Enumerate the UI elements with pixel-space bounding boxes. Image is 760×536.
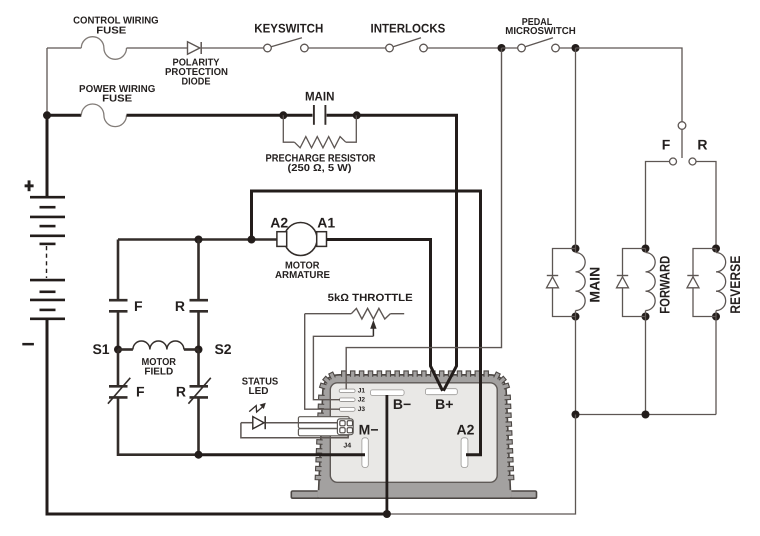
svg-text:FUSE: FUSE — [96, 25, 126, 36]
svg-text:FUSE: FUSE — [102, 94, 132, 105]
contact F normally closed with slash — [108, 378, 130, 404]
wire precharge branch left — [283, 115, 294, 142]
label M- — [359, 421, 379, 437]
label B+ — [435, 396, 453, 412]
svg-text:MICROSWITCH: MICROSWITCH — [505, 26, 576, 37]
wire main coil to bottom rail node — [575, 317, 577, 415]
wire throttle wiper to J2 — [313, 336, 373, 399]
label PRECHARGE RESISTOR — [266, 153, 376, 165]
controller U1 housing with heatsink fins and mounting base — [291, 371, 536, 498]
svg-text:LED: LED — [249, 386, 269, 397]
terminal B- bar — [370, 390, 404, 396]
wire R contact to reverse coil — [696, 162, 716, 249]
svg-text:KEYSWITCH: KEYSWITCH — [254, 21, 323, 35]
wire armature A1 to B+ terminal — [327, 240, 443, 391]
label B- — [393, 396, 411, 412]
wire main contactor to B+ terminal — [357, 115, 457, 391]
wire pedal switch to coil node — [559, 47, 575, 49]
wire battery positive to control fuse — [47, 48, 81, 115]
label POWER WIRING FUSE — [79, 84, 156, 104]
svg-text:R: R — [175, 298, 185, 314]
svg-text:S1: S1 — [92, 341, 109, 357]
wire S2 down to R normally-closed contact — [197, 350, 200, 387]
label A2 controller — [457, 421, 475, 437]
wire field bottom rail left — [118, 397, 199, 454]
svg-text:MAIN: MAIN — [586, 267, 602, 303]
label F upper contact — [134, 298, 143, 314]
svg-text:INTERLOCKS: INTERLOCKS — [371, 21, 446, 35]
relay coil REVERSE with flyback diode — [687, 245, 743, 321]
switch S1 keyswitch — [264, 38, 309, 52]
LED emission arrow — [249, 403, 266, 412]
node main contact left — [279, 111, 287, 119]
wire field top rail — [118, 238, 277, 241]
pin J2 — [339, 398, 355, 402]
wire reverse coil to bottom rail — [715, 317, 717, 415]
label J2 — [358, 397, 366, 404]
svg-text:MAIN: MAIN — [305, 90, 335, 104]
node S2 — [195, 346, 203, 354]
terminal M- bar — [362, 438, 368, 468]
wire battery negative lead — [47, 319, 388, 514]
wire battery positive lead — [46, 115, 49, 197]
label STATUS LED — [242, 377, 279, 398]
wire precharge branch right — [346, 115, 357, 142]
svg-text:F: F — [662, 137, 671, 153]
svg-text:REVERSE: REVERSE — [727, 256, 743, 314]
label J3 — [358, 406, 366, 413]
wire F contact to S1 — [117, 311, 120, 349]
svg-text:F: F — [136, 383, 145, 399]
node main contact right — [353, 111, 361, 119]
label KEYSWITCH — [254, 21, 323, 35]
label S2 — [214, 341, 231, 357]
resistor R1 precharge resistor — [294, 137, 345, 148]
wire S1 down to F normally-closed contact — [117, 350, 120, 387]
node field-armature junction S2 branch — [195, 236, 203, 244]
wire coil return rail — [576, 414, 717, 416]
label 5k ohm THROTTLE — [328, 292, 413, 304]
throttle wiper arrow — [370, 320, 376, 336]
switch S4 forward contact — [670, 158, 677, 165]
label PEDAL MICROSWITCH — [505, 17, 576, 37]
svg-text:J2: J2 — [358, 397, 366, 404]
svg-text:J4: J4 — [343, 443, 351, 450]
label R selector — [697, 137, 707, 153]
wire main contact to node — [327, 114, 357, 117]
label battery plus — [25, 180, 34, 191]
svg-text:B+: B+ — [435, 396, 453, 412]
wire KSI node to J1 — [346, 48, 501, 389]
terminal B+ bar — [425, 389, 457, 395]
label INTERLOCKS — [371, 21, 446, 35]
terminal A2 bar — [461, 438, 468, 468]
contact R reverse field contact — [190, 300, 209, 311]
wire LED cathode into connector — [266, 422, 347, 424]
svg-text:(250 Ω, 5 W): (250 Ω, 5 W) — [288, 163, 352, 174]
wire right branch to bottom rail — [197, 397, 200, 454]
node junction KSI — [498, 44, 506, 52]
wire right field branch upper — [197, 240, 200, 301]
wire forward coil to bottom rail — [645, 317, 647, 415]
svg-text:R: R — [697, 137, 707, 153]
node armature A2 junction — [248, 236, 256, 244]
svg-text:M−: M− — [359, 421, 379, 437]
label 250 ohm 5 W — [288, 163, 352, 174]
inductor motor field winding — [118, 341, 199, 349]
connector J4 cross — [337, 419, 353, 435]
svg-text:5kΩ THROTTLE: 5kΩ THROTTLE — [328, 292, 413, 304]
label MOTOR ARMATURE — [275, 261, 330, 281]
svg-text:A2: A2 — [270, 214, 288, 230]
pin J1 — [339, 389, 355, 393]
wire node to pedal microswitch — [502, 47, 518, 49]
connector housing upper — [298, 417, 349, 429]
node rail junction main — [572, 411, 580, 419]
wire keyswitch to interlocks — [308, 47, 386, 49]
svg-text:DIODE: DIODE — [182, 76, 211, 87]
switch S4 forward-reverse selector common — [678, 122, 686, 158]
node battery positive junction — [43, 111, 51, 119]
label F lower contact — [136, 383, 145, 399]
svg-text:FIELD: FIELD — [144, 366, 173, 377]
label J1 — [358, 387, 366, 394]
label A1 armature — [317, 214, 335, 230]
svg-text:ARMATURE: ARMATURE — [275, 270, 330, 281]
pin J3 — [339, 407, 355, 411]
wire LED anode return into connector — [241, 423, 348, 438]
wire fuse to diode — [127, 47, 188, 49]
contact R normally closed with slash — [188, 378, 210, 404]
node S1 — [114, 346, 122, 354]
relay coil MAIN with flyback diode — [547, 245, 603, 321]
svg-text:B−: B− — [393, 396, 411, 412]
svg-text:J3: J3 — [358, 406, 366, 413]
wire coil rail down to battery negative rail — [387, 415, 576, 515]
svg-text:A1: A1 — [317, 214, 335, 230]
label S1 — [92, 341, 109, 357]
LED D2 status LED — [241, 416, 265, 429]
label CONTROL WIRING FUSE — [73, 16, 159, 37]
svg-text:J1: J1 — [358, 387, 366, 394]
wire top rail to FR selector — [576, 48, 683, 122]
motor armature M1 — [277, 223, 327, 256]
svg-text:A2: A2 — [457, 421, 475, 437]
wire diode to keyswitch — [202, 47, 264, 49]
fuse F2 power wiring fuse — [81, 104, 126, 127]
diode D1 polarity protection diode — [188, 42, 202, 54]
battery dashed middle — [46, 246, 48, 278]
relay coil FORWARD with flyback diode — [617, 245, 673, 321]
label J4 — [343, 443, 351, 450]
switch S4 reverse contact — [689, 158, 696, 165]
wire B- terminal to battery negative rail — [385, 395, 388, 514]
node rail junction forward — [642, 411, 650, 419]
svg-text:F: F — [134, 298, 143, 314]
contact F forward field contact — [109, 300, 128, 311]
wire throttle end to J3 — [305, 314, 340, 410]
resistor R2 throttle potentiometer — [305, 308, 405, 319]
battery BT1 cell plates — [30, 197, 65, 319]
svg-text:R: R — [176, 383, 186, 399]
svg-text:S2: S2 — [214, 341, 231, 357]
wire power fuse to main contact — [127, 114, 284, 117]
wire into main contact — [283, 114, 312, 117]
wire field branch F upper — [117, 240, 120, 301]
label R upper contact — [175, 298, 185, 314]
fuse F1 control wiring fuse — [81, 37, 126, 60]
wire battery to power fuse — [47, 114, 81, 117]
wire armature A2 to controller A2 — [252, 191, 481, 455]
node field return junction — [195, 451, 203, 459]
svg-text:FORWARD: FORWARD — [656, 256, 672, 314]
wire R contact to S2 — [197, 311, 200, 349]
label MAIN contactor — [305, 90, 335, 104]
label battery minus — [22, 343, 34, 346]
label A2 armature — [270, 214, 288, 230]
wire field return to M- terminal — [199, 453, 366, 456]
label POLARITY PROTECTION DIODE — [165, 58, 228, 88]
label R lower contact — [176, 383, 186, 399]
wire main coil feed from top node — [575, 48, 577, 249]
node battery negative B- junction — [383, 510, 391, 518]
switch S2 interlocks — [386, 38, 428, 52]
contact MAIN contactor — [314, 105, 326, 125]
wire F contact to forward coil — [646, 162, 670, 249]
node junction main coil feed — [572, 44, 580, 52]
label F selector — [662, 137, 671, 153]
switch S3 pedal microswitch — [518, 38, 560, 52]
wire interlocks to node — [427, 47, 501, 49]
connector housing lower — [298, 429, 349, 436]
label MOTOR FIELD — [142, 357, 177, 378]
